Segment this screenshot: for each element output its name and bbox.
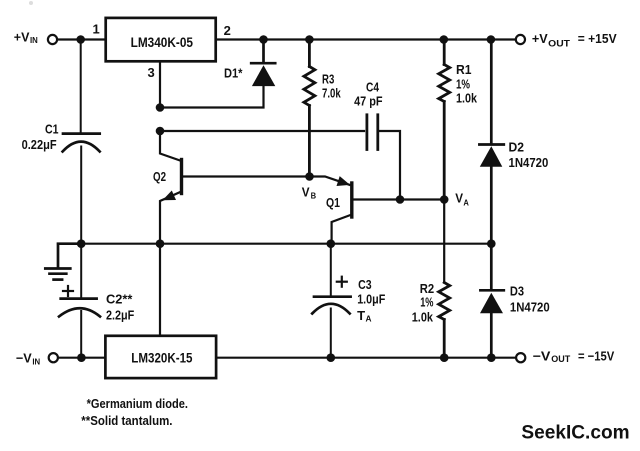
node D2 top [487,35,496,44]
svg-text:3: 3 [148,65,155,80]
capacitor C4 [367,115,378,150]
terminal +VIN [48,35,57,44]
svg-text:V: V [455,192,463,206]
Q1 emitter wire from VB with arrow [310,177,350,185]
svg-text:IN: IN [30,36,38,45]
terminal -VIN [49,353,58,362]
svg-text:1.0k: 1.0k [412,309,434,324]
wire +VIN to regulator pin 1 [57,38,105,40]
svg-text:2.2μF: 2.2μF [106,307,134,322]
ground [45,244,81,280]
wire Q1 base to VA [353,198,444,200]
svg-text:1N4720: 1N4720 [510,299,550,314]
svg-text:D3: D3 [510,284,524,299]
Q2 emitter with arrow [160,192,182,244]
svg-text:+V: +V [14,29,30,44]
terminal -VOUT [516,353,525,362]
svg-text:D2: D2 [509,140,525,155]
wire pin 3 down [159,62,161,109]
svg-text:**Solid tantalum.: **Solid tantalum. [81,413,172,428]
node VA [440,195,449,204]
wire Q2 collector [160,131,182,161]
node VB [305,172,314,181]
node mid rail D2/D3 [487,239,496,248]
svg-text:D1*: D1* [224,66,243,81]
node D1 top [259,35,268,44]
svg-text:R1: R1 [456,62,472,77]
regulator U1 LM340K-05 [106,18,216,61]
svg-text:2: 2 [224,23,231,38]
label VA [455,192,469,208]
transistor Q1 [350,183,353,217]
label -VOUT = -15V [533,348,615,363]
svg-text:1.0μF: 1.0μF [357,292,385,307]
svg-text:T: T [357,308,365,323]
node pin3 junction [156,103,165,112]
svg-text:V: V [302,185,310,200]
svg-text:IN: IN [32,357,40,366]
svg-text:C4: C4 [366,79,380,94]
svg-text:1: 1 [93,22,100,37]
label TA [357,308,372,324]
svg-text:0.22μF: 0.22μF [22,137,57,152]
wire LM320 out to -VOUT rail [217,357,516,359]
svg-text:= −15V: = −15V [578,348,614,363]
svg-text:−V: −V [533,348,551,363]
diode D1 [251,41,275,86]
capacitor C2 [59,244,100,358]
label +VOUT = +15V [532,31,617,48]
node C3 bottom [327,353,336,362]
node Q1 base / C4 [396,195,405,204]
wire -VIN to LM320 [58,357,105,359]
resistor R2 [439,283,450,358]
node D3 bottom [487,353,496,362]
wire LM320 top pin to mid rail [159,245,161,336]
resistor R1 [439,41,450,200]
svg-text:C1: C1 [45,122,59,137]
wire node to C4 left plate [160,130,364,132]
svg-text:SeekIC.com: SeekIC.com [521,422,629,444]
svg-text:*Germanium diode.: *Germanium diode. [87,396,188,411]
svg-text:R3: R3 [322,71,334,86]
svg-text:OUT: OUT [551,354,571,364]
node R1 top [440,35,449,44]
terminal +VOUT [516,35,525,44]
label -VIN [16,350,41,366]
svg-text:1%: 1% [456,76,470,91]
wire Q2 base to VB [183,175,310,177]
svg-text:Q2: Q2 [153,169,166,184]
svg-text:7.0k: 7.0k [322,85,341,100]
svg-text:LM340K-05: LM340K-05 [131,35,194,50]
svg-text:1.0k: 1.0k [456,91,478,106]
node mid rail C1/C2 [77,239,86,248]
wire Q1 collector down [332,215,352,244]
svg-text:+V: +V [532,31,548,46]
wire D1 anode to pin3 node [160,86,264,108]
wire VA down through mid rail to R2 [443,200,445,283]
svg-text:Q1: Q1 [326,195,340,210]
wire mid rail [58,243,491,245]
capacitor C1 [63,41,100,244]
svg-text:−V: −V [16,350,32,365]
node C2 bottom [77,353,86,362]
svg-text:47 pF: 47 pF [354,94,383,109]
node mid rail Q1/C3 [327,239,336,248]
label VB [302,185,316,201]
svg-text:B: B [311,191,317,201]
node junction at C1 top [76,35,85,44]
wire C4 right plate down to Q1 base [378,131,400,200]
svg-text:1N4720: 1N4720 [509,155,549,170]
wire pin 2 to +VOUT rail [217,38,516,40]
regulator U2 LM320K-15 [105,336,216,378]
node R3 top [305,35,314,44]
capacitor C3 [312,244,350,358]
speck [29,1,33,5]
svg-text:= +15V: = +15V [578,31,617,46]
svg-text:A: A [366,315,372,324]
svg-text:C2**: C2** [106,291,133,306]
node mid rail Q2/LM320 [156,239,165,248]
svg-text:A: A [463,197,469,207]
resistor R3 [304,41,315,177]
diode D2 [479,41,503,244]
svg-text:OUT: OUT [548,38,570,48]
svg-text:C3: C3 [358,277,372,292]
transistor Q2 [180,160,183,194]
label +VIN [14,29,38,45]
node C4 wire junction [156,127,165,136]
node R2 bottom [440,353,449,362]
svg-text:1%: 1% [420,294,434,309]
diode D3 [480,244,504,358]
svg-text:LM320K-15: LM320K-15 [131,350,193,365]
